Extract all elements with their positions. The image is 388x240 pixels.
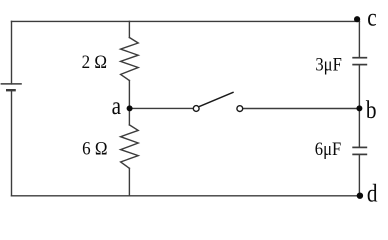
capacitor C2 6uF bottom plate — [352, 153, 367, 155]
wire node a to switch left terminal — [129, 107, 193, 109]
node c junction dot — [354, 16, 360, 22]
wire left top (corner to battery top plate) — [11, 21, 13, 84]
battery B1 long plate (positive terminal) — [1, 83, 22, 85]
svg-text:6 Ω: 6 Ω — [82, 138, 107, 159]
svg-text:3μF: 3μF — [315, 55, 341, 76]
node d junction dot — [357, 193, 363, 199]
wire left bottom (battery bottom plate to bottom-left corner) — [11, 90, 13, 196]
wire between R1 and node a — [128, 81, 130, 109]
wire bottom (bottom-left corner to node d) — [12, 195, 360, 197]
svg-text:2 Ω: 2 Ω — [82, 52, 107, 73]
wire right middle (capacitor C1 through node b to capacitor C2) — [358, 65, 360, 146]
svg-text:c: c — [367, 4, 376, 32]
resistor R2 6 ohm zigzag — [121, 125, 139, 168]
node a junction dot — [127, 105, 133, 111]
switch S1 blade (open, angled up-right) — [199, 92, 234, 107]
node b junction dot — [356, 105, 362, 111]
svg-text:d: d — [367, 180, 378, 208]
wire top (left corner to node c) — [12, 20, 360, 22]
capacitor C1 3uF top plate — [352, 57, 367, 59]
capacitor C2 6uF top plate — [352, 146, 367, 148]
svg-text:b: b — [366, 96, 377, 124]
svg-text:a: a — [112, 92, 121, 120]
resistor R1 2 ohm zigzag — [121, 38, 139, 81]
switch S1 right terminal circle — [237, 106, 243, 112]
wire between node a and resistor R2 — [128, 108, 130, 125]
wire middle branch top (top wire down to resistor R1) — [128, 21, 130, 37]
wire right upper (node c down to capacitor C1) — [358, 21, 360, 57]
wire switch right terminal to node b — [242, 108, 359, 110]
switch S1 left terminal circle — [193, 106, 199, 112]
wire between R2 and bottom wire — [128, 168, 130, 196]
svg-text:6μF: 6μF — [315, 139, 341, 160]
capacitor C1 3uF bottom plate — [352, 64, 367, 66]
battery B1 short plate (negative terminal) — [6, 89, 16, 91]
wire right lower (capacitor C2 down to node d) — [358, 155, 360, 196]
